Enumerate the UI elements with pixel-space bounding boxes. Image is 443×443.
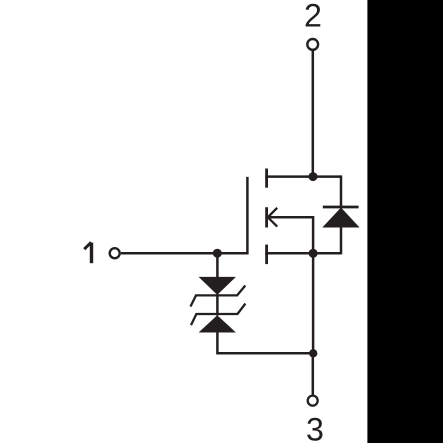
TVS zener Z2 cathode bar with bent ends bbox=[191, 304, 245, 326]
terminal 3 pin circle bbox=[308, 396, 318, 406]
wire: between zeners bbox=[216, 294, 219, 316]
transistor Q1 gate bar + gate wire from terminal 1 bbox=[121, 177, 247, 253]
transistor Q1 body arrow (points left) bbox=[268, 208, 277, 227]
node: gate junction dot bbox=[213, 249, 222, 258]
transistor Q1 channel drain bar bbox=[265, 169, 268, 188]
wire: source line bbox=[265, 252, 341, 255]
diode D1 triangle bbox=[322, 208, 359, 228]
transistor Q1 channel source bar bbox=[265, 245, 268, 265]
transistor Q1 channel body bar bbox=[265, 207, 268, 227]
wire: bottom node to terminal 3 bbox=[312, 353, 315, 395]
node: source junction dot bbox=[309, 249, 318, 258]
TVS zener Z2 triangle (points up) bbox=[199, 315, 236, 332]
wire: terminal 2 to drain node bbox=[312, 51, 315, 177]
TVS zener Z1 triangle (points down) bbox=[199, 277, 236, 295]
svg-text:2: 2 bbox=[304, 0, 322, 33]
right transparent-black band bbox=[367, 0, 443, 443]
diode D1 bottom lead bbox=[340, 227, 343, 255]
terminal 1 pin circle bbox=[110, 248, 120, 258]
terminal label 1 bbox=[84, 242, 91, 263]
wire: source node down to bottom node bbox=[312, 253, 315, 353]
wire: body connection to source node bbox=[267, 217, 314, 253]
TVS zener Z1 cathode bar with bent ends bbox=[191, 286, 246, 307]
wire: gate node down to TVS bbox=[216, 253, 219, 278]
node: drain junction dot bbox=[309, 172, 318, 181]
wire: TVS down and right to bottom node bbox=[217, 333, 313, 354]
diode D1 cathode bar bbox=[323, 206, 359, 209]
node: bottom junction dot bbox=[309, 349, 317, 357]
svg-text:3: 3 bbox=[306, 412, 324, 443]
terminal 2 pin circle bbox=[307, 39, 318, 50]
wire: drain line (channel to diode branch) bbox=[265, 175, 341, 178]
diode D1 (body diode) top lead bbox=[340, 175, 343, 207]
